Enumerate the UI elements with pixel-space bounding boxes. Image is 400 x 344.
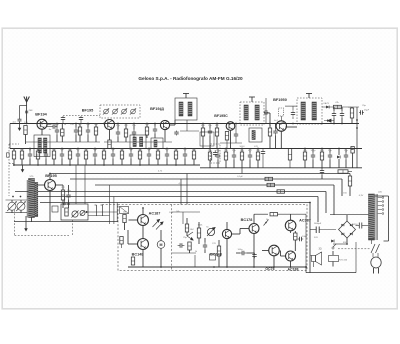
IF can box T4 xyxy=(175,98,197,120)
wire under T5 xyxy=(220,142,242,144)
wire motor xyxy=(160,230,162,241)
trimmer capacitor CV1 xyxy=(103,108,109,114)
transistor BF195 AM xyxy=(45,180,56,191)
resistor row2r j xyxy=(320,152,323,160)
wire nest N2 xyxy=(70,178,342,180)
resistor row2 t xyxy=(174,151,177,159)
potentiometer tone xyxy=(80,211,85,216)
resistor row2 h xyxy=(68,151,71,159)
svg-text:BF195C: BF195C xyxy=(214,114,228,118)
wire speaker feed vertical xyxy=(305,214,307,267)
wire det lower xyxy=(322,123,357,125)
svg-text:0,1μF: 0,1μF xyxy=(237,176,243,178)
wire BF195 AM emitter xyxy=(49,191,51,222)
capacitor det d xyxy=(359,110,364,114)
potentiometer volume xyxy=(72,211,78,217)
wire AC187d collector xyxy=(290,214,292,220)
svg-text:B250: B250 xyxy=(352,224,358,226)
capacitor det a xyxy=(332,111,336,118)
wire T6 top xyxy=(308,94,310,99)
wire BF195C emitter xyxy=(230,130,232,148)
capacitor antenna shunt xyxy=(18,118,22,120)
wire bus step down xyxy=(305,267,307,273)
switch power a xyxy=(332,244,336,249)
resistor stage1 d xyxy=(78,127,81,135)
wire BF195 emitter xyxy=(109,130,111,141)
wire phono link xyxy=(88,211,118,213)
resistor stage3 a xyxy=(145,127,148,135)
resistor audio in xyxy=(123,215,126,223)
IF box T5b xyxy=(249,128,262,142)
wire vertical phono a xyxy=(109,185,111,224)
resistor mid right b xyxy=(338,170,348,173)
trimmer driver xyxy=(264,220,269,226)
box feedback xyxy=(210,254,216,260)
wire volume feed b xyxy=(84,165,86,204)
component value labels xyxy=(13,102,367,253)
wire AC187 base xyxy=(129,219,138,221)
capacitor stage2 a xyxy=(116,130,120,137)
resistor stage2 b xyxy=(124,129,127,137)
resistor stage1 b xyxy=(61,129,64,136)
trimmer capacitor CV3 xyxy=(121,108,127,114)
resistor mid e xyxy=(217,246,220,256)
wire varcap top xyxy=(6,199,28,201)
wire bridge bottom xyxy=(346,238,348,244)
capacitor row2 k xyxy=(93,152,97,159)
wire top bus xyxy=(10,123,359,125)
wire nest N3 right drop xyxy=(333,185,335,215)
wire ferrite down xyxy=(31,218,33,223)
transformer taps xyxy=(378,197,384,215)
resistor on nest N3 xyxy=(267,183,275,186)
wire BC178 emitter xyxy=(253,234,255,267)
wire BC148b emitter xyxy=(226,239,228,267)
capacitor row2 g xyxy=(60,152,64,159)
svg-text:1M: 1M xyxy=(123,212,126,214)
box input small xyxy=(52,206,58,212)
wire volume feed a xyxy=(75,165,77,204)
capacitor BF195 bypass xyxy=(66,193,70,200)
capacitor antenna series xyxy=(25,110,28,112)
svg-text:6,3V: 6,3V xyxy=(359,195,364,197)
antenna xyxy=(24,97,30,103)
wire T4 top xyxy=(185,94,187,99)
capacitor row2 s xyxy=(165,152,169,159)
switch contact small a xyxy=(64,203,66,205)
svg-text:NTC150: NTC150 xyxy=(339,260,348,262)
wire nest N1 right drop xyxy=(349,174,351,177)
component on dashed edge xyxy=(7,153,10,157)
capacitor row2 i xyxy=(76,152,80,159)
diode row2r l xyxy=(337,155,340,158)
diode power xyxy=(331,240,334,243)
resistor row2 l xyxy=(102,151,105,159)
svg-text:3Ω: 3Ω xyxy=(318,248,321,251)
diode detector D1 xyxy=(326,105,329,108)
wire OC76 base xyxy=(262,250,269,252)
mains plug xyxy=(371,257,381,268)
dashed left AM box xyxy=(8,144,10,196)
wire driver top xyxy=(253,214,255,223)
wire power bottom bus xyxy=(306,272,356,274)
wire BF1943 emitter xyxy=(164,130,166,142)
svg-text:OA79: OA79 xyxy=(323,102,329,105)
wire coupling xyxy=(247,252,255,254)
dot junction bus xyxy=(305,266,307,268)
wire OC76 emitter xyxy=(273,256,275,267)
variable capacitor tuning AM b xyxy=(16,201,26,211)
wire bias top xyxy=(56,184,64,186)
pickup element xyxy=(120,207,129,214)
capacitor row2r b xyxy=(216,153,220,160)
capacitor row2 q xyxy=(147,152,151,159)
capacitor stage3 b xyxy=(153,127,157,134)
capacitor osc top c xyxy=(79,116,83,121)
resistor row2 d xyxy=(36,151,39,159)
ground arrow left bus xyxy=(21,165,25,173)
capacitor stage5 b xyxy=(273,129,277,136)
capacitor stage1 c xyxy=(74,128,78,135)
wire nest N6 xyxy=(40,202,310,204)
capacitor mid col xyxy=(261,149,265,156)
wire power switch xyxy=(332,251,334,255)
IF box T3 xyxy=(151,138,163,149)
capacitor audio c xyxy=(178,243,185,247)
capacitor row2r k xyxy=(328,153,332,160)
wire nest N6 right drop xyxy=(309,203,311,273)
bridge rectifier xyxy=(339,221,356,238)
svg-text:BC178: BC178 xyxy=(241,218,253,222)
capacitor row2r m xyxy=(344,153,348,160)
resistor on nest N2 xyxy=(265,177,273,180)
wire BF194 base xyxy=(27,123,37,125)
resistor row2 f xyxy=(52,151,55,159)
tuning gang dashed box xyxy=(100,105,140,118)
wire AC188 base xyxy=(281,255,286,257)
transistor BC148 xyxy=(138,239,149,250)
capacitor mid right a xyxy=(320,168,324,175)
transformer mains xyxy=(369,194,375,240)
capacitor row2 e xyxy=(44,152,48,159)
resistor driver feed xyxy=(270,213,278,216)
capacitor det b xyxy=(340,111,344,118)
resistor row2r e xyxy=(240,152,243,160)
resistor audio d xyxy=(188,242,191,250)
resistor audio b xyxy=(185,224,188,232)
capacitor BC178 out xyxy=(252,253,256,258)
NTC resistor xyxy=(329,256,339,262)
wire T5 to BF1950 xyxy=(264,112,270,114)
transistor BF195 xyxy=(105,120,115,130)
resistor tone xyxy=(197,228,200,238)
wire mid bus 2 xyxy=(104,141,172,143)
capacitor BF194 right xyxy=(52,124,57,128)
capacitor row2 c xyxy=(28,152,32,159)
resistor row2r n xyxy=(351,147,354,154)
wire BF1943 collector to T4 xyxy=(170,124,175,126)
resistor BC148 load xyxy=(131,257,134,265)
wire bottom right vertical xyxy=(355,242,357,273)
wire detector top bus xyxy=(322,106,359,108)
wire BF1950 right net xyxy=(285,105,297,107)
resistor row2 b xyxy=(20,151,23,159)
resistor BC148 left xyxy=(120,237,123,245)
wire bus link N1 xyxy=(241,168,243,174)
capacitor stage1 e xyxy=(86,128,90,135)
wire T5 top xyxy=(251,97,253,102)
resistor row2 r xyxy=(156,151,159,159)
wire connector a xyxy=(96,205,98,216)
wire transformer secondary right xyxy=(375,195,389,197)
wire nest N1 xyxy=(50,173,350,175)
box tone control unit xyxy=(61,204,88,220)
wire nest N5 right drop xyxy=(317,197,319,223)
dashed audio amplifier enclosure xyxy=(118,205,307,271)
component above BF1950 xyxy=(279,108,284,116)
svg-text:AC188: AC188 xyxy=(288,267,299,271)
capacitor row2 u xyxy=(183,152,187,159)
capacitor row2r f xyxy=(248,153,252,160)
svg-text:50V: 50V xyxy=(314,237,318,239)
resistor on nest N4 xyxy=(277,190,285,193)
wire BC148 emitter xyxy=(142,250,144,268)
wire antenna down-lead xyxy=(26,102,28,124)
capacitor tone xyxy=(203,243,207,250)
resistor detector R xyxy=(334,105,342,108)
svg-text:25μF: 25μF xyxy=(364,110,370,112)
resistor stage1 f xyxy=(94,127,97,135)
transistor BF195C xyxy=(226,122,235,131)
capacitor T4 bottom xyxy=(174,131,178,136)
svg-text:100μ: 100μ xyxy=(302,236,308,238)
wire speaker top link xyxy=(311,255,312,257)
wire nest N2 right drop xyxy=(341,179,343,196)
svg-text:AC187: AC187 xyxy=(149,212,161,216)
wire amp vertical inner xyxy=(182,212,184,224)
resistor row2r a xyxy=(208,152,211,160)
wire BF195 AM collector up xyxy=(49,174,51,180)
capacitor electrolytic 1000uF xyxy=(315,227,317,234)
resistor row2 a xyxy=(12,151,15,159)
trimmer capacitor CV4 xyxy=(130,108,136,114)
IF box T2 xyxy=(130,135,146,149)
wire audio bottom bus xyxy=(128,266,306,268)
dashed cap box mid xyxy=(211,144,221,163)
resistor row2 j xyxy=(84,151,87,159)
resistor BF195 emitter xyxy=(108,140,111,149)
speaker xyxy=(312,256,316,262)
svg-text:BF195: BF195 xyxy=(45,174,57,178)
resistor emitter BF194 left xyxy=(24,126,27,135)
wire speaker xyxy=(313,262,315,268)
svg-text:Geloso S.p.A. - Radiofonogra: Geloso S.p.A. - Radiofonografo AM-FM G.1… xyxy=(138,76,243,81)
capacitor driver xyxy=(298,237,303,241)
wire bus row3 right xyxy=(200,167,362,169)
resistor stage4 a xyxy=(201,128,204,136)
wire BF194 emitter xyxy=(41,129,43,135)
resistor BF195 bias a xyxy=(61,190,64,200)
wire BC148 base xyxy=(128,243,138,245)
transistor BF1943 xyxy=(160,120,169,129)
wire AC187 emitter xyxy=(142,226,144,239)
wire nest corner drop b xyxy=(180,179,182,205)
svg-text:BF195: BF195 xyxy=(82,109,94,113)
potentiometer volume main xyxy=(207,228,214,235)
wire bottom bus verticals xyxy=(194,255,196,267)
resistor det c xyxy=(350,108,353,118)
wire mains xyxy=(372,253,374,257)
detector dashed box T6 xyxy=(297,98,322,124)
svg-text:BF1950: BF1950 xyxy=(273,98,287,102)
diode detector D2 xyxy=(328,119,332,122)
capacitor row2 o xyxy=(129,152,133,159)
resistor stage5 a xyxy=(268,128,271,136)
switch contact small b xyxy=(68,203,70,205)
wire det right vertical xyxy=(356,107,358,168)
wire nest N4 right drop xyxy=(325,192,327,214)
wire vertical phono c xyxy=(116,203,118,222)
arrows AC187 xyxy=(153,220,160,228)
dot junction det xyxy=(356,119,358,121)
wire BF1950 emitter xyxy=(280,131,282,148)
capacitor row2r d xyxy=(232,153,236,160)
wire AC187d emitter xyxy=(290,231,292,233)
dashed enclosure left bottom xyxy=(14,210,16,236)
wire bus row2 xyxy=(10,148,362,150)
mains switch levers xyxy=(371,244,375,253)
transistor BC148 second xyxy=(222,229,231,238)
wire left edge vertical xyxy=(9,124,11,149)
resistor row2 p xyxy=(138,151,141,159)
box stage4 xyxy=(200,132,214,146)
motor M xyxy=(157,241,165,249)
transistor AC187 driver xyxy=(285,220,296,231)
wire transformer primary bottom xyxy=(371,240,373,244)
resistor row2 v xyxy=(192,151,195,159)
resistor row2r g xyxy=(256,152,259,160)
wire nest N4 xyxy=(15,191,326,193)
transistor BF194 xyxy=(37,119,47,129)
svg-text:BC148: BC148 xyxy=(210,253,222,257)
wire mid bus left xyxy=(26,141,100,143)
wire T4 bottom xyxy=(186,120,188,131)
wire to audio box xyxy=(14,221,118,223)
capacitor coupling out xyxy=(240,251,247,255)
capacitor filter small xyxy=(358,223,360,229)
wire antenna branch xyxy=(20,105,27,107)
transistor BF1950 xyxy=(276,121,286,131)
wire BC178 base xyxy=(232,233,240,235)
capacitor after BF195C xyxy=(234,132,238,139)
IF can dashed T5 xyxy=(240,102,264,125)
transistor AC187 preamp xyxy=(138,215,149,226)
resistor row2 n xyxy=(120,151,123,159)
dashed vertical phono xyxy=(71,220,73,236)
transistor BC178 xyxy=(249,224,259,234)
trimmer capacitor CV2 xyxy=(112,108,118,114)
wire feed transformer xyxy=(330,214,370,216)
svg-text:M: M xyxy=(160,243,163,247)
transistor bare arrows xyxy=(187,232,193,236)
svg-text:BC148: BC148 xyxy=(132,253,144,257)
resistor row2r h xyxy=(303,152,306,160)
resistor stage4 c xyxy=(215,128,218,136)
capacitor BF1950 left xyxy=(264,110,269,114)
svg-text:AC187: AC187 xyxy=(299,219,311,223)
wire nest N5 xyxy=(27,196,318,198)
svg-text:BF194: BF194 xyxy=(35,112,47,116)
ferrite rod antenna coil xyxy=(26,180,28,218)
svg-text:1000μF: 1000μF xyxy=(314,223,322,225)
wire amp top inner xyxy=(172,211,201,213)
wire amp mid xyxy=(172,252,197,254)
variable capacitor tuning AM a xyxy=(7,201,17,211)
capacitor stage1 a xyxy=(55,128,59,135)
resistor row2r c xyxy=(224,152,227,160)
wire BF1950 collector xyxy=(285,126,297,128)
capacitor osc top a xyxy=(61,116,65,121)
dashed divider record player xyxy=(171,205,173,271)
wire connector b xyxy=(102,205,104,216)
wire AC187 collector xyxy=(142,208,144,215)
wire BC148b collector xyxy=(226,222,228,229)
resistor driver emitter xyxy=(294,233,297,240)
wire BF195 AM base xyxy=(37,184,45,186)
IF box T1 xyxy=(34,135,50,157)
capacitor row2 m xyxy=(111,152,115,159)
ground arrow ferrite xyxy=(24,216,28,232)
resistor mid right col xyxy=(288,149,291,161)
wire bridge top xyxy=(346,215,348,221)
dot contact a xyxy=(86,211,88,213)
svg-text:100μ: 100μ xyxy=(311,150,317,152)
capacitor row2r i xyxy=(311,153,315,160)
svg-text:100μ: 100μ xyxy=(238,249,244,251)
ground arrow antenna xyxy=(18,122,22,132)
wire nest corner drop a xyxy=(186,174,188,205)
wire nest N3 xyxy=(95,184,334,186)
svg-text:5000: 5000 xyxy=(240,146,246,148)
dashed mechanical link xyxy=(338,248,371,250)
wire bus row3 left xyxy=(13,164,200,166)
transistor AC188 xyxy=(286,251,296,261)
capacitor stage2 c xyxy=(132,130,136,137)
wire varcap bottom xyxy=(6,212,28,214)
wire AC188 emitter xyxy=(290,261,292,267)
wire vertical phono b xyxy=(113,197,115,225)
resistor right drop xyxy=(348,176,351,186)
resistor after BF195C xyxy=(225,132,228,141)
capacitor stage4 b xyxy=(208,129,212,136)
resistor inside tone box xyxy=(65,208,68,216)
dashed AFC line xyxy=(63,115,100,117)
transistor OC76 xyxy=(269,245,280,256)
